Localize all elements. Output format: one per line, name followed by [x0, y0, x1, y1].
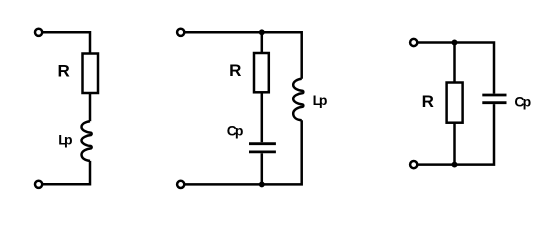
svg-text:R: R: [422, 92, 434, 111]
svg-text:R: R: [229, 61, 241, 80]
svg-text:Lp: Lp: [313, 92, 328, 108]
svg-text:Lp: Lp: [58, 131, 72, 147]
svg-text:R: R: [57, 61, 69, 80]
svg-text:Cp: Cp: [227, 122, 244, 138]
svg-text:Cp: Cp: [514, 93, 531, 109]
